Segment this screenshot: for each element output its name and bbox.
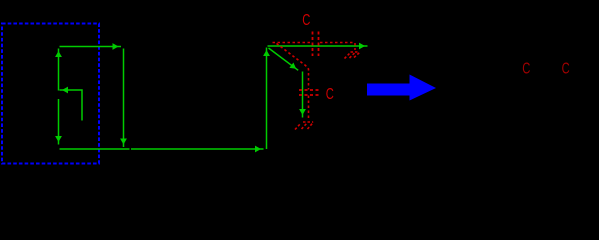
svg-text:C: C bbox=[326, 84, 334, 103]
ghost wire: stub down to upper ground (red dashed) bbox=[354, 43, 356, 50]
wire: bottom horizontal segment 1 bbox=[60, 148, 130, 150]
wire: left vertical upper segment (arrow up) bbox=[55, 49, 62, 91]
ghost wire: diagonal rubber-band (red dashed) bbox=[277, 44, 309, 90]
wire: bottom horizontal segment 2 (arrow right) bbox=[131, 146, 264, 153]
drag arrow: green diagonal (down-right) bbox=[269, 48, 299, 70]
big blue arrow (transition) bbox=[367, 75, 436, 101]
ghost wire: upper horizontal right of capacitor (red dashed) bbox=[320, 42, 355, 44]
drag arrow: green vertical (down) bbox=[299, 72, 306, 118]
capacitor C2 ghost: bottom plate (red dashed) bbox=[299, 94, 319, 96]
selection box (blue dashed rectangle) bbox=[2, 24, 99, 164]
ghost wire: lead down to lower ground (red dashed) bbox=[308, 96, 310, 121]
wire: top-left horizontal segment bbox=[60, 43, 122, 50]
capacitor C1 ghost: right plate (red dashed) bbox=[318, 32, 320, 57]
ground symbol ghost (upper, red dashed) bbox=[345, 52, 360, 59]
capacitor C2 ghost: top plate (red dashed) bbox=[299, 89, 319, 91]
svg-text:C: C bbox=[522, 58, 530, 77]
wire: right vertical of selection (arrow down) bbox=[120, 49, 127, 148]
wire: left vertical lower segment (arrow down) bbox=[55, 99, 62, 145]
wire: middle vertical segment (arrow up) bbox=[263, 48, 270, 150]
ghost wire: upper horizontal left of capacitor (red dashed) bbox=[273, 42, 312, 44]
wire: inner L-shaped segment (arrow left) bbox=[60, 87, 83, 121]
svg-text:C: C bbox=[302, 10, 310, 29]
ground symbol ghost (lower, red dashed) bbox=[295, 122, 314, 130]
capacitor C1 ghost: left plate (red dashed) bbox=[312, 32, 314, 57]
svg-text:C: C bbox=[562, 59, 570, 78]
wire: middle top horizontal segment (arrow right) bbox=[268, 43, 368, 50]
